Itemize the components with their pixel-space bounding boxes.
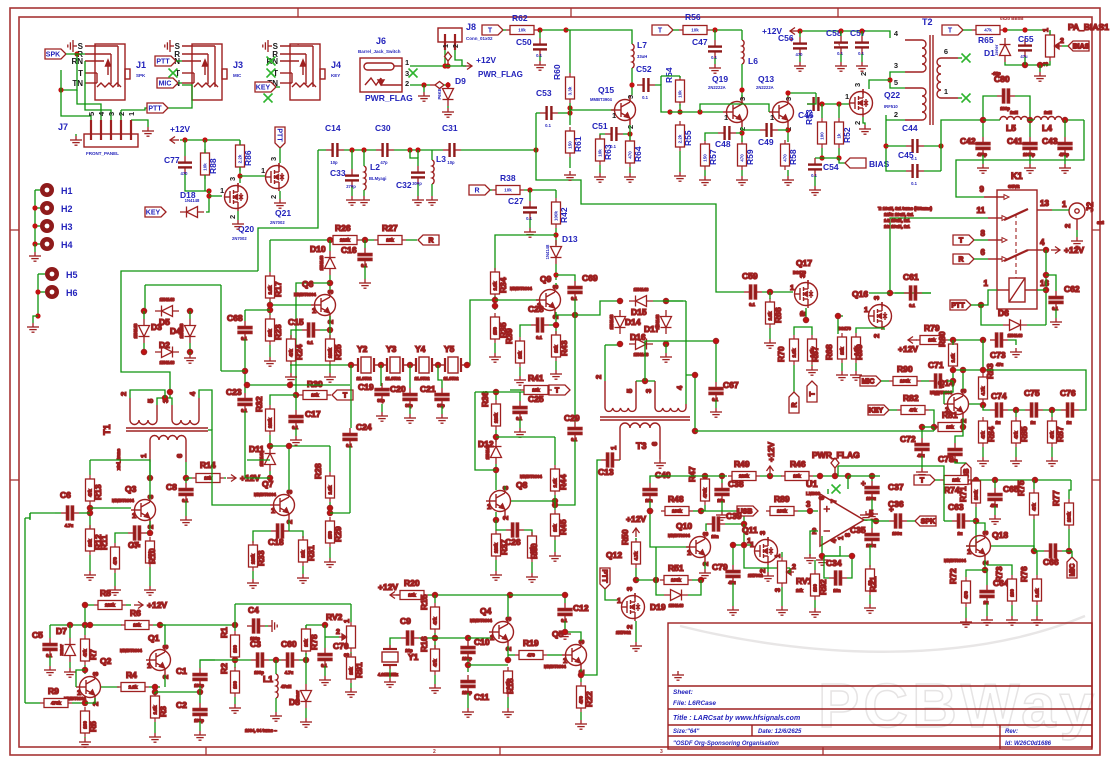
w [1062,550,1072,552]
resistor R24 [287,335,296,365]
svg-text:C4: C4 [248,605,259,615]
wire [126,604,131,606]
svg-text:1: 1 [147,661,151,670]
svg-text:47u: 47u [917,453,925,458]
svg-text:C1: C1 [176,666,187,676]
diode D15 [629,296,653,307]
wire [291,330,302,338]
svg-text:C12: C12 [573,603,589,613]
wire rail right [510,595,565,603]
svg-text:R87: R87 [1055,426,1065,442]
wire [863,117,865,125]
trimmer RV2 [25,323,1086,729]
wire [732,583,734,606]
border ticks [297,8,299,17]
resistor R37 [492,530,501,560]
wire [629,125,631,140]
junction [730,542,735,547]
wire [66,53,85,55]
wire [143,343,145,352]
capacitor C59 [744,291,750,293]
svg-text:PTT: PTT [951,303,965,310]
svg-text:R1: R1 [219,627,229,638]
wire [769,292,771,299]
junction [232,657,237,662]
power [767,466,774,475]
w [350,652,352,656]
w Q14 base [944,381,953,404]
svg-text:10k: 10k [203,163,208,171]
wire [185,501,187,516]
svg-text:2.2k: 2.2k [792,348,797,357]
svg-text:1N4148: 1N4148 [669,603,684,608]
wire [176,60,182,62]
svg-text:R38: R38 [500,173,516,183]
svg-text:47k: 47k [1014,431,1019,439]
w [1068,529,1070,551]
wire [184,140,186,156]
wire to relay 9 [956,120,1084,197]
wire [693,510,701,512]
w [983,405,990,410]
svg-text:100: 100 [83,721,88,729]
wire C13 T3 [619,459,620,461]
junction [572,312,577,317]
resistor R54 [676,76,685,106]
wire [653,300,683,302]
junction [58,87,63,92]
junction [206,188,211,193]
svg-text:2N2222A: 2N2222A [756,85,774,90]
svg-text:6: 6 [944,47,948,56]
wire [811,365,813,366]
svg-text:C36: C36 [888,499,904,509]
svg-text:3: 3 [644,389,653,393]
svg-text:R26: R26 [335,223,351,233]
svg-text:R21: R21 [868,576,878,592]
resistor R88 [201,149,210,179]
svg-text:H2: H2 [61,204,73,214]
transistor Q13 [769,97,794,127]
w [305,625,307,628]
svg-text:100: 100 [233,645,238,653]
junction [667,109,672,114]
svg-text:0.1: 0.1 [711,55,717,60]
w Q18 coll [976,523,985,531]
ground [809,186,821,195]
svg-text:R24: R24 [294,344,304,360]
wire [880,31,890,38]
ground J6 [418,92,430,101]
svg-text:1uH: 1uH [1044,110,1052,115]
wire [290,365,292,373]
svg-text:10k: 10k [691,28,699,33]
junction [415,147,420,152]
wire [711,29,742,31]
wire [329,365,331,373]
junction [67,622,72,627]
svg-text:zener: zener [994,44,999,55]
svg-text:1: 1 [790,283,794,292]
connector J4 [280,44,325,100]
diode D13 [551,240,562,264]
svg-text:L2: L2 [370,162,380,172]
svg-text:C32: C32 [396,180,412,190]
wire [524,189,556,191]
junction [1062,117,1067,122]
wire [569,157,571,168]
svg-text:3: 3 [228,177,237,181]
junction [152,684,157,689]
wire [840,54,842,62]
svg-text:C24: C24 [356,422,372,432]
ground J4 sleeve [263,40,272,52]
wire [793,365,795,392]
svg-text:5: 5 [625,389,634,393]
net flag PTT [600,568,610,589]
svg-text:R55: R55 [683,130,693,146]
wire [417,184,419,196]
svg-text:10k: 10k [532,388,540,393]
resistor R42 [552,198,561,228]
svg-text:C28: C28 [528,304,544,314]
wire D12 right [496,436,555,438]
svg-text:R51: R51 [668,563,684,573]
svg-text:T3: T3 [636,441,647,451]
junction [973,518,978,523]
svg-text:47k: 47k [83,649,88,657]
wire xtal in [290,364,354,366]
svg-text:10n: 10n [717,498,725,503]
junction [950,337,955,342]
capacitor C25 [519,401,521,407]
svg-text:10k: 10k [946,425,954,430]
resistor R20 [396,591,428,600]
w rail join [933,427,935,431]
svg-text:R14: R14 [200,460,216,470]
svg-text:R63: R63 [603,144,613,160]
svg-text:R28: R28 [313,463,323,479]
wire Q4 coll [507,595,509,617]
junction [361,147,366,152]
w [1008,409,1025,411]
svg-text:4: 4 [831,539,838,543]
wire top [475,391,524,393]
capacitor C73 [990,339,996,341]
wire [798,510,818,512]
wire [204,175,206,191]
svg-text:C5: C5 [32,630,43,640]
w [1069,480,1071,499]
wire long key [121,271,258,398]
junction [286,443,291,448]
svg-text:3: 3 [626,95,635,99]
wire bus [61,70,91,134]
svg-text:R19: R19 [523,638,539,648]
w [324,625,326,648]
wire to C24 [330,512,350,514]
svg-text:2: 2 [336,629,340,636]
capacitor C38 [721,483,723,489]
ground [835,62,847,71]
wire [1037,289,1046,291]
svg-text:4.7k: 4.7k [981,386,986,395]
svg-text:5: 5 [894,78,898,87]
capacitor C71 [929,380,935,382]
svg-text:10k: 10k [504,188,512,193]
junction [157,622,162,627]
svg-text:R52: R52 [842,127,852,143]
wire [519,367,521,376]
wire [986,603,988,616]
capacitor C76 [1061,409,1067,411]
w D19 [656,580,664,595]
wire [269,435,271,447]
wire [921,456,923,468]
capacitor C52 [637,84,643,86]
svg-text:10k: 10k [793,474,801,479]
ground [376,412,388,421]
svg-text:0.1: 0.1 [561,618,567,623]
junction [492,303,497,308]
wire [189,311,191,319]
svg-text:11.0592: 11.0592 [386,376,402,381]
svg-text:+12V: +12V [170,124,190,134]
svg-text:220k: 220k [340,238,351,243]
wire [84,625,86,635]
svg-text:6: 6 [175,454,184,458]
svg-text:C45: C45 [898,150,914,160]
wire [564,621,566,630]
svg-text:BS170: BS170 [793,270,806,275]
svg-text:D9: D9 [455,76,466,86]
junction [807,508,812,513]
junction [739,87,744,92]
resistor R63 [596,135,605,165]
resistor R27 [374,236,406,245]
svg-text:R64: R64 [633,146,643,162]
wire [295,428,297,436]
junction [1043,272,1048,277]
svg-text:2.2k: 2.2k [768,311,773,320]
wire [436,364,441,366]
svg-text:R40: R40 [529,543,539,559]
connector J7 [84,120,138,147]
net flag R [469,185,490,195]
ground Q21 [274,199,286,208]
crystal Y5 [441,357,465,373]
svg-text:C69: C69 [582,273,598,283]
capacitor C35 [871,528,873,534]
wire [714,30,716,40]
wire long feed [536,150,716,290]
capacitor C11 [467,675,469,681]
svg-text:1: 1 [617,596,621,605]
resistor R29 [326,517,335,547]
power +12V [1051,247,1060,254]
wire [75,134,77,136]
svg-text:10p: 10p [447,160,455,165]
wire C67 top [715,341,717,382]
ground [916,468,928,477]
svg-text:150: 150 [568,141,573,149]
svg-text:Q10: Q10 [676,521,692,531]
svg-text:R48: R48 [668,494,684,504]
resistor R52 [835,118,844,148]
svg-text:3: 3 [161,645,170,649]
w em [580,669,582,682]
junction [322,622,327,627]
svg-text:R53: R53 [804,109,814,125]
transistor Q10 [686,532,711,562]
svg-text:R6: R6 [130,608,141,618]
svg-text:0.1: 0.1 [811,173,817,178]
junction [960,367,965,372]
svg-text:4.91520Hz: 4.91520Hz [378,672,398,677]
wire keying [258,155,318,271]
junction [74,51,79,56]
wire [705,133,718,141]
wire [1052,209,1069,211]
junction [819,553,824,558]
wire [445,65,466,67]
junction [493,467,498,472]
wire T1 2-5 [130,390,165,398]
svg-text:10k: 10k [518,351,523,359]
w [781,552,783,557]
svg-text:LM386: LM386 [806,491,821,496]
ground [575,720,587,729]
wire [889,409,897,411]
resistor R11 [111,543,120,573]
wire [958,97,962,99]
wire [855,363,857,371]
svg-text:0.1: 0.1 [46,653,52,658]
flag PWR_FLAG3 [831,458,839,476]
wire [317,150,319,155]
pad H2 [40,201,54,215]
w [290,384,350,386]
capacitor C46 [807,103,813,105]
net flag SPK [45,49,66,59]
connector J8 [438,28,462,50]
svg-text:2: 2 [1063,224,1072,228]
svg-text:1: 1 [945,405,949,414]
svg-text:4.7k: 4.7k [634,551,639,560]
svg-text:2N7002: 2N7002 [270,220,285,225]
svg-text:PWR_FLAG: PWR_FLAG [365,93,413,103]
resistor R76 [1033,575,1042,605]
wire Q9 em [549,324,556,326]
svg-text:C3: C3 [250,639,261,649]
capacitor C50 [539,38,541,44]
w sidetone to base [655,547,657,580]
svg-text:470k: 470k [703,487,708,498]
wire [821,148,823,158]
junction [562,629,567,634]
svg-text:2: 2 [792,564,796,571]
svg-text:T: T [948,28,953,35]
svg-text:Q12: Q12 [606,550,622,560]
capacitor C31 [443,149,449,151]
capacitor C44 [906,145,912,147]
svg-text:1: 1 [609,446,618,450]
wire [649,501,651,511]
junction [35,289,40,294]
wire [760,475,782,477]
svg-text:Q13: Q13 [758,74,774,84]
junction [836,155,841,160]
wire [467,659,469,672]
junction [493,517,498,522]
no-connect [264,94,273,103]
svg-text:47u: 47u [990,503,998,508]
svg-text:10k: 10k [88,539,93,547]
wire C69 top [556,275,575,281]
wire Q2-R4 [101,686,119,688]
junction [1049,407,1054,412]
wire [679,123,681,125]
inductor L2 [364,166,366,190]
wire [569,103,571,125]
wire to Q4 [435,637,468,639]
w C34 b [824,556,852,578]
wire [529,190,531,201]
w rail 480 [972,479,1071,481]
wire [631,68,633,95]
wire [394,149,443,151]
junction [167,389,172,394]
wire [814,176,816,186]
w C63 left [944,520,952,522]
svg-text:10k: 10k [796,588,804,593]
wire ring right out [685,301,687,404]
svg-text:10k: 10k [952,478,960,483]
svg-text:KEY: KEY [256,85,271,92]
wire [434,595,436,603]
transistor Q5 [562,640,587,670]
svg-text:7: 7 [831,499,838,503]
resistor R21 [866,565,875,595]
wire [351,150,353,169]
wire Q7 em [288,520,290,531]
svg-text:10n: 10n [833,588,841,593]
resistor R70 [790,335,799,365]
wire [704,562,706,569]
wire [495,430,497,442]
svg-text:6: 6 [819,496,826,500]
junction [797,28,802,33]
wire [741,64,743,100]
svg-text:10n: 10n [950,458,958,463]
resistor R51 [660,576,692,585]
capacitor C33 [351,169,353,175]
svg-text:R80: R80 [937,331,947,347]
svg-text:100k: 100k [672,509,683,514]
wire [153,624,235,626]
svg-text:0.1: 0.1 [536,53,542,58]
junction [1043,287,1048,292]
junction [973,477,978,482]
svg-text:100: 100 [820,132,825,140]
wire [715,400,717,408]
capacitor C49 [760,129,766,131]
svg-text:R92: R92 [818,579,828,595]
net flag T [942,25,963,35]
svg-text:2: 2 [894,110,898,119]
junction [767,289,772,294]
svg-text:T: T [343,393,348,400]
